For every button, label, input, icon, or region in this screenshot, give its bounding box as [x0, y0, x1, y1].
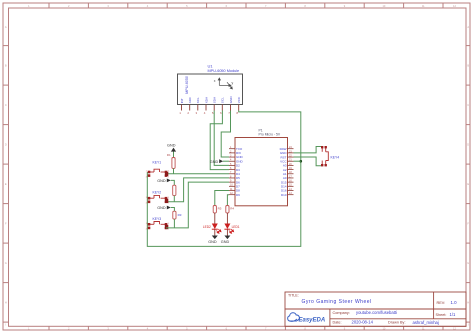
svg-text:Date:: Date:	[333, 321, 342, 325]
svg-text:1/1: 1/1	[450, 312, 456, 317]
svg-text:D: D	[467, 143, 469, 147]
key KEY4 (rotated)	[321, 146, 339, 166]
svg-text:1: 1	[146, 223, 147, 225]
svg-text:AD0: AD0	[188, 97, 192, 103]
svg-text:MPU-6050 Module: MPU-6050 Module	[208, 69, 240, 73]
ground flag above R3	[157, 206, 174, 212]
P1 right pins	[288, 149, 294, 195]
U1 pins 1-8	[182, 105, 239, 111]
svg-text:GND: GND	[210, 160, 219, 164]
svg-text:Drawn By:: Drawn By:	[388, 321, 406, 325]
EasyEDA logo	[288, 313, 326, 324]
wire R3 bottom KEY3 to P1.D6	[166, 182, 229, 228]
svg-text:G: G	[5, 261, 7, 265]
svg-text:H: H	[467, 301, 469, 305]
wire SCL U1.6 to P1.D3	[210, 111, 229, 170]
wire P1.RST to KEY4 bottom	[294, 157, 322, 166]
svg-text:GND: GND	[208, 240, 217, 244]
svg-text:GND: GND	[167, 144, 176, 148]
svg-text:KEY1: KEY1	[153, 160, 162, 164]
LED LED1	[224, 213, 239, 236]
svg-text:LED1: LED1	[232, 225, 240, 229]
U1 axis indicator arrows	[214, 78, 234, 89]
svg-text:C: C	[5, 103, 7, 107]
svg-text:ashraf_minhaj: ashraf_minhaj	[413, 320, 439, 325]
key KEY3	[146, 217, 169, 231]
junction blobs at key outputs	[165, 172, 168, 229]
svg-text:INT: INT	[180, 98, 184, 103]
svg-text:MPU-6050: MPU-6050	[185, 76, 189, 94]
wire P1.GND to KEY4 top	[294, 147, 322, 153]
svg-text:GND: GND	[157, 179, 166, 183]
wire P1.VCC to rail junction	[294, 160, 301, 162]
IC module U1 MPU-6050	[178, 64, 243, 105]
svg-text:Company:: Company:	[333, 311, 350, 315]
svg-text:KEY4: KEY4	[331, 155, 340, 159]
svg-text:A: A	[467, 25, 469, 29]
svg-text:U1: U1	[208, 64, 214, 69]
svg-text:LED2: LED2	[203, 225, 211, 229]
svg-text:A: A	[5, 25, 7, 29]
svg-text:youtube.com/fusebatti: youtube.com/fusebatti	[356, 310, 397, 315]
wire P1.D9 to R4	[227, 195, 229, 206]
ground flag below LED2	[208, 236, 218, 245]
svg-text:Pro Micro - 5V: Pro Micro - 5V	[259, 133, 281, 137]
resistor R2	[173, 185, 176, 195]
resistor R5	[213, 206, 222, 214]
svg-text:2020-08-14: 2020-08-14	[352, 320, 374, 325]
svg-text:B: B	[5, 64, 7, 68]
svg-text:x: x	[214, 79, 216, 83]
svg-text:VCC: VCC	[237, 96, 241, 103]
resistor R1	[167, 153, 175, 169]
wire R1 bottom to KEY1 and P1.D4	[166, 169, 229, 174]
svg-text:1.0: 1.0	[451, 300, 458, 305]
svg-text:G: G	[467, 261, 469, 265]
svg-text:3: 3	[168, 197, 169, 199]
key KEY1	[146, 160, 169, 178]
svg-text:2: 2	[146, 229, 147, 231]
svg-text:R3: R3	[178, 213, 182, 217]
svg-text:2: 2	[146, 176, 147, 178]
wire GND U1.7 to P1.GND	[221, 111, 230, 158]
svg-text:KEY2: KEY2	[153, 191, 162, 195]
svg-text:D10: D10	[281, 193, 287, 197]
svg-text:B: B	[467, 64, 469, 68]
svg-text:1: 1	[146, 197, 147, 199]
svg-text:E: E	[467, 182, 469, 186]
svg-text:R4: R4	[230, 207, 234, 211]
svg-text:2: 2	[146, 203, 147, 205]
svg-text:REV:: REV:	[437, 301, 446, 305]
svg-text:H: H	[5, 301, 7, 305]
LED LED2	[203, 213, 221, 236]
wire P1.D8 to R5	[215, 191, 229, 206]
ground flag above R1	[167, 144, 176, 158]
svg-text:XDA: XDA	[204, 96, 208, 103]
svg-text:EasyEDA: EasyEDA	[299, 318, 326, 324]
svg-text:R1: R1	[167, 153, 171, 157]
svg-text:C: C	[467, 103, 469, 107]
wire VCC U1.8 right rail bottom rail left rail	[147, 111, 300, 247]
svg-text:E: E	[5, 182, 7, 186]
MCU board P1 Pro Micro - 5V	[235, 129, 288, 206]
svg-text:D9: D9	[236, 193, 240, 197]
resistor R4	[226, 206, 235, 214]
svg-text:SCL: SCL	[221, 97, 225, 103]
svg-text:R5: R5	[218, 207, 222, 211]
svg-text:Gyro Gaming Steer Wheel: Gyro Gaming Steer Wheel	[302, 299, 372, 305]
key KEY2	[146, 191, 169, 205]
wire R2 bottom KEY2 to P1.D5	[166, 178, 229, 202]
svg-text:4: 4	[168, 176, 169, 178]
svg-text:3: 3	[168, 223, 169, 225]
resistor R3	[173, 211, 182, 219]
svg-text:Sheet:: Sheet:	[436, 313, 447, 317]
svg-text:GND: GND	[221, 240, 230, 244]
svg-text:GND: GND	[157, 206, 166, 210]
svg-text:KEY3: KEY3	[153, 217, 162, 221]
svg-text:1: 1	[146, 171, 147, 173]
svg-text:GND: GND	[229, 96, 233, 104]
junction VCC rail to P1.VCC	[300, 160, 303, 163]
svg-text:TITLE:: TITLE:	[288, 294, 299, 298]
P1 left pins	[229, 149, 235, 195]
title block	[285, 292, 466, 326]
svg-text:y: y	[232, 81, 234, 85]
ground flag GND4 at P1 GND pin	[210, 159, 229, 164]
svg-text:D: D	[5, 143, 7, 147]
wire SDA U1.5 to P1.D2	[214, 111, 229, 166]
svg-text:XCL: XCL	[196, 97, 200, 103]
svg-text:SDA: SDA	[213, 96, 217, 103]
ground flag above R2	[157, 179, 174, 186]
ground flag below LED1	[221, 236, 231, 245]
